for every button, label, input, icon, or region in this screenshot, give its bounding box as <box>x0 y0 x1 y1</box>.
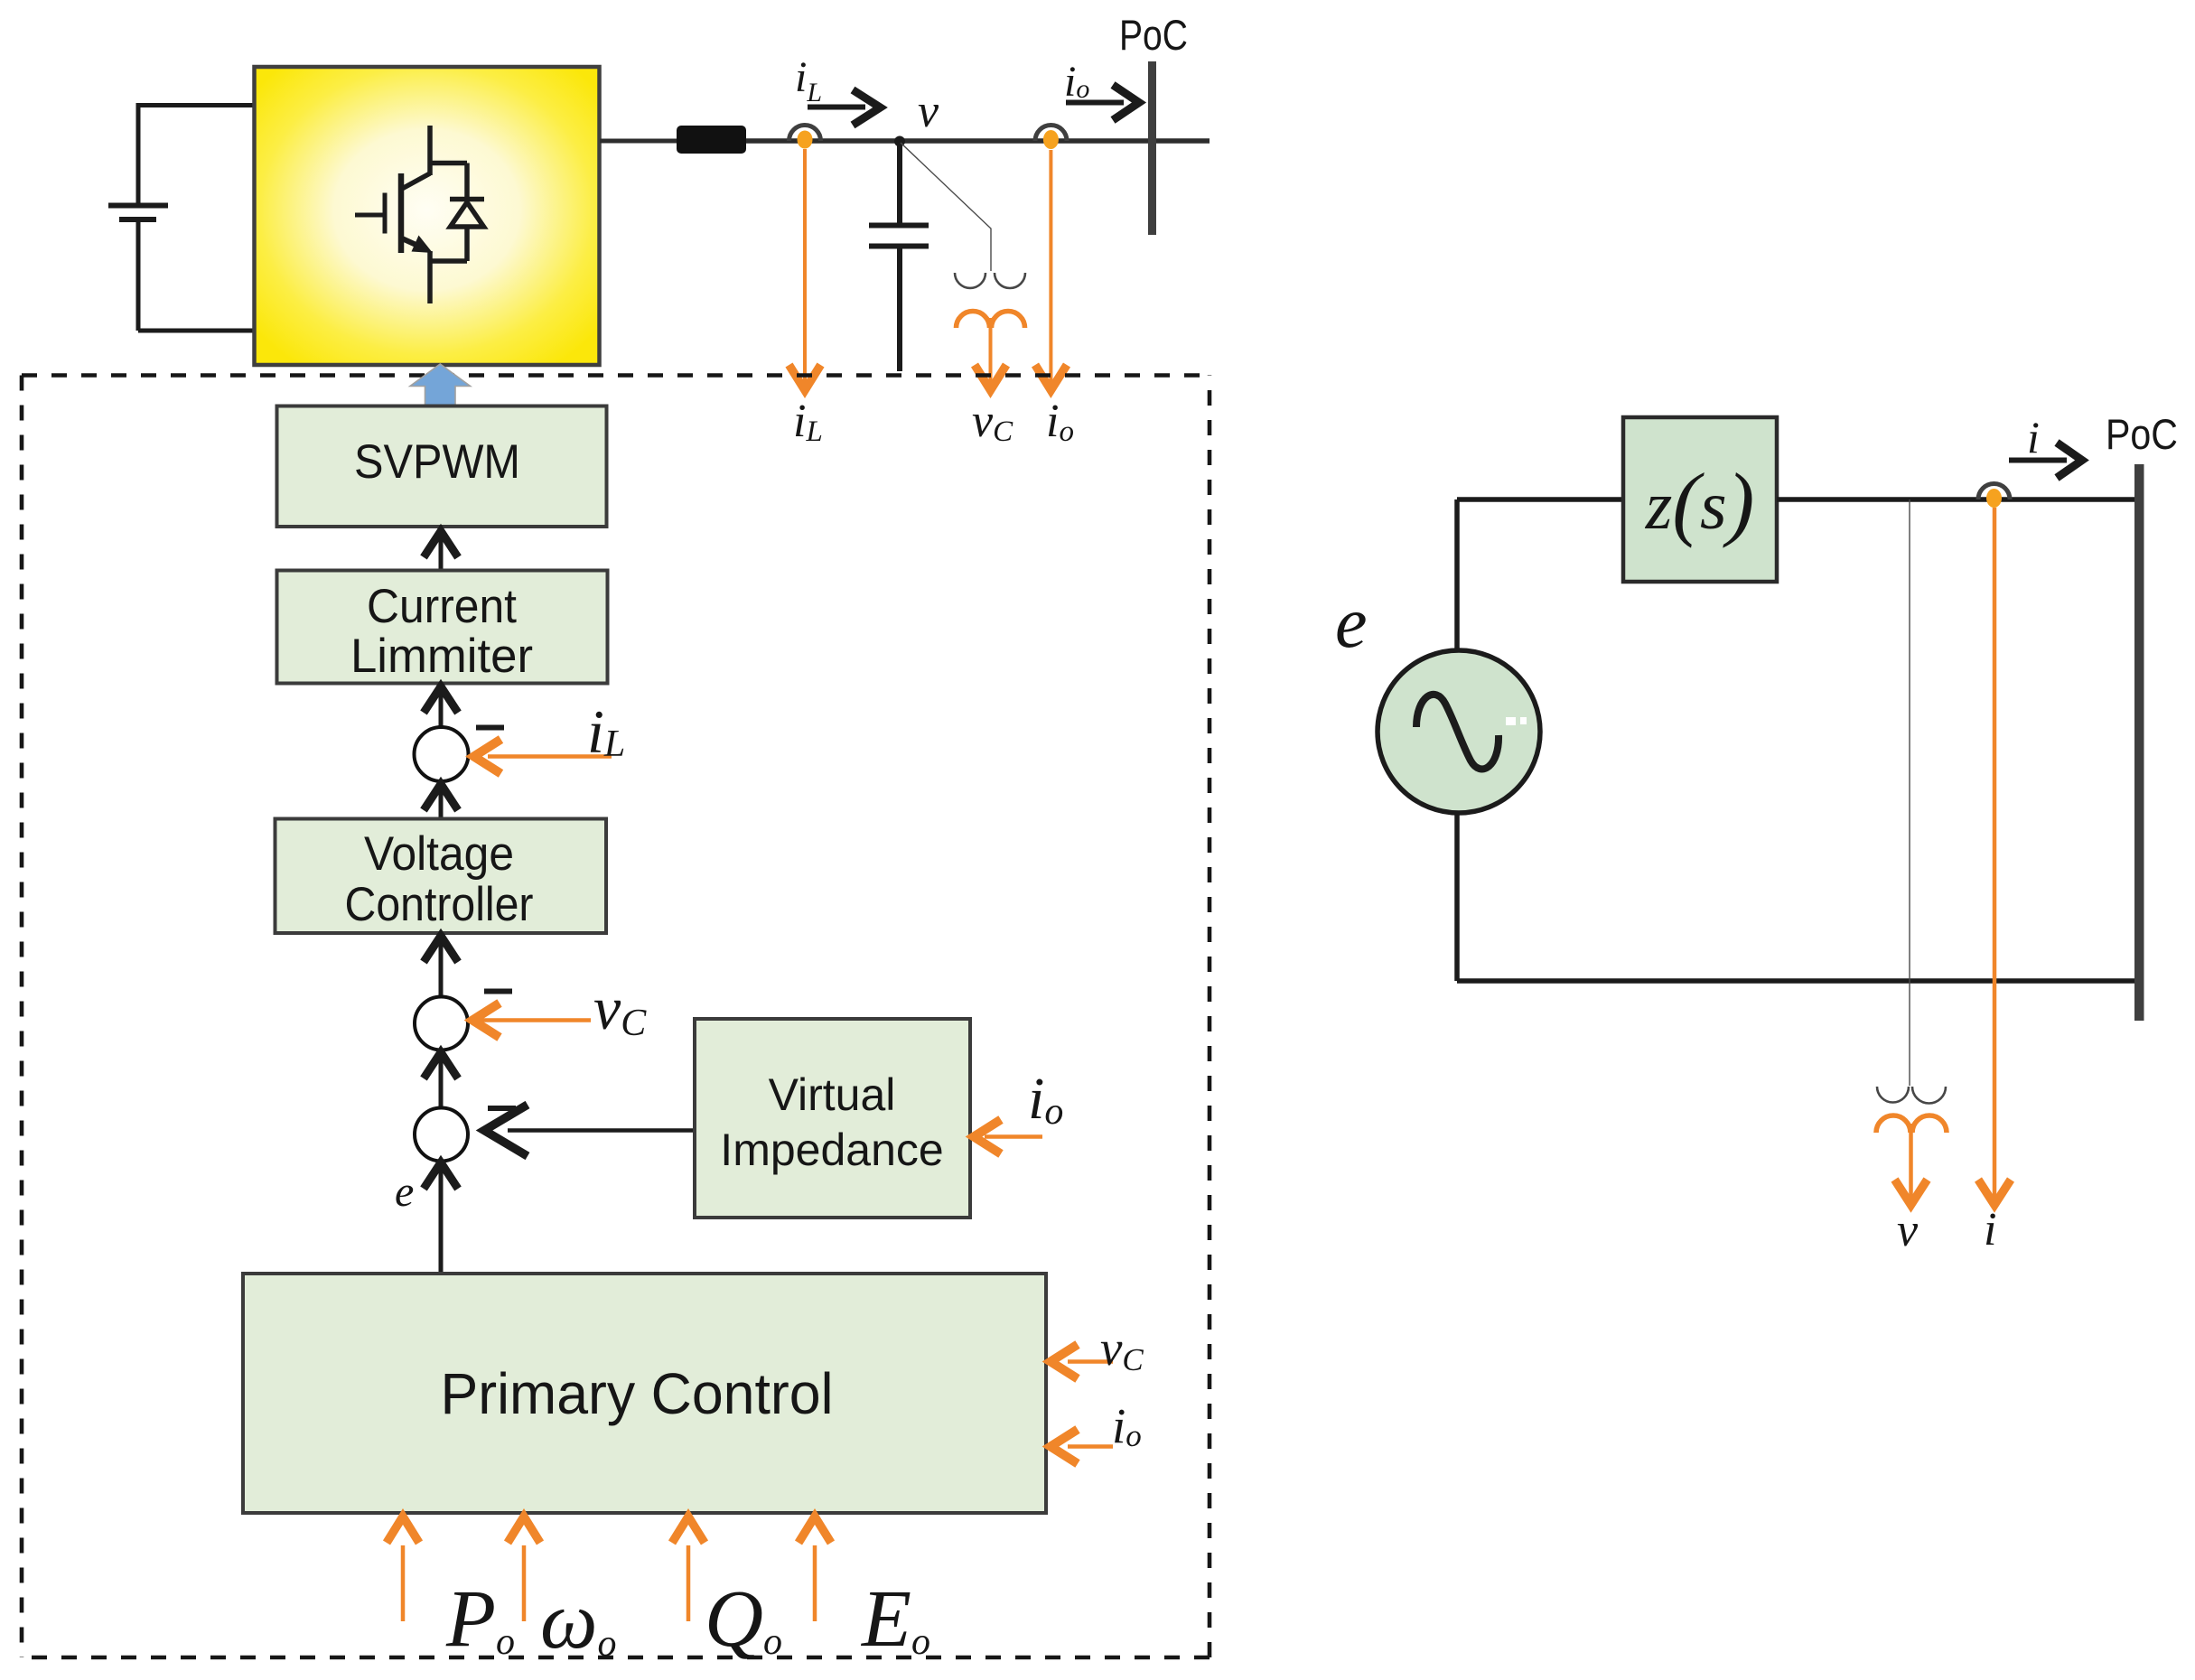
battery V1 <box>108 103 254 331</box>
svg-text:Current: Current <box>367 580 517 633</box>
reference input arrow Eo <box>799 1517 831 1621</box>
svg-text:Voltage: Voltage <box>364 827 514 881</box>
v measurement arrow (right) <box>1895 1124 1928 1205</box>
arrow sum1 to limiter <box>424 686 458 727</box>
block Current Limmiter <box>277 571 608 684</box>
bottom return wire <box>1457 978 2139 984</box>
svg-text:vC: vC <box>593 974 647 1044</box>
svg-text:Limmiter: Limmiter <box>350 630 533 683</box>
svg-text:vC: vC <box>972 396 1013 448</box>
PoC bus bar (left) <box>1148 61 1156 235</box>
voltage probe clips orange <box>957 312 1025 329</box>
transistor Q1 (IGBT) <box>355 126 467 303</box>
voltage probe lead <box>901 143 991 271</box>
svg-text:Primary Control: Primary Control <box>441 1361 834 1426</box>
svg-text:iL: iL <box>793 396 823 448</box>
reference input arrow wo <box>508 1517 540 1621</box>
source e (sine) <box>1378 650 1540 813</box>
vC feedback arrow <box>472 1003 591 1038</box>
svg-text:iL: iL <box>587 697 625 766</box>
svg-text:i: i <box>2027 412 2040 462</box>
block Primary Control <box>243 1274 1046 1513</box>
probe clips gray (right) <box>1877 1087 1946 1104</box>
svg-text:vC: vC <box>1100 1321 1144 1377</box>
svg-text:PoC: PoC <box>1119 11 1188 59</box>
vC input arrow PC <box>1051 1345 1113 1379</box>
reference input arrow Qo <box>672 1517 705 1621</box>
svg-text:e: e <box>1335 583 1368 663</box>
summing node S1 <box>415 727 469 781</box>
io input arrow to VI <box>974 1120 1042 1154</box>
arrow sum3 to sum2 <box>424 1051 458 1107</box>
svg-text:v: v <box>1897 1205 1919 1256</box>
diode D1 <box>430 163 484 262</box>
PWM gate arrow (blue) <box>410 364 471 406</box>
reference input arrow Po <box>387 1517 419 1621</box>
current sensor iL <box>789 126 821 149</box>
node v <box>894 136 905 147</box>
block z(s) <box>1623 417 1777 582</box>
left wire of source loop <box>1454 499 1460 981</box>
arrow sum2 to VC <box>424 936 458 996</box>
svg-text:Po: Po <box>445 1574 515 1664</box>
svg-text:iL: iL <box>795 53 822 107</box>
svg-text:z(s): z(s) <box>1645 456 1754 548</box>
minus sign S1 <box>476 725 504 731</box>
svg-text:Controller: Controller <box>345 878 534 931</box>
svg-text:PoC: PoC <box>2106 410 2178 458</box>
svg-text:i: i <box>1984 1204 1996 1255</box>
summing node S2 <box>415 997 468 1050</box>
io input arrow PC <box>1051 1430 1113 1464</box>
wire z(s) to PoC <box>1777 497 2134 502</box>
svg-text:Qo: Qo <box>705 1574 782 1664</box>
svg-text:Impedance: Impedance <box>720 1125 943 1175</box>
arrow VC to sum1 <box>424 783 458 818</box>
block SVPWM <box>277 406 607 527</box>
svg-text:Eo: Eo <box>860 1574 930 1664</box>
i measurement arrow (right) <box>1978 508 2011 1205</box>
svg-text:io: io <box>1112 1398 1142 1453</box>
block Virtual Impedance <box>695 1019 970 1218</box>
inductor L1 <box>677 126 746 154</box>
arrow PC to sum3 <box>424 1162 458 1274</box>
emitter arrowhead <box>412 236 434 254</box>
summing node S3 <box>415 1108 468 1162</box>
measurement arrow vC <box>975 318 1006 390</box>
controller dashed boundary <box>22 376 1210 1658</box>
svg-text:ωo: ωo <box>540 1576 617 1666</box>
wire converter to inductor <box>600 139 677 144</box>
voltage probe lead (right) <box>1909 499 1910 1086</box>
wire inductor to PoC <box>746 138 1210 144</box>
voltage probe clips gray <box>955 273 1025 288</box>
svg-text:v: v <box>918 86 939 137</box>
PoC bus bar (right) <box>2134 464 2144 1021</box>
current sensor io <box>1035 126 1067 150</box>
io flow arrow <box>1066 85 1139 120</box>
minus sign S2 <box>484 989 512 994</box>
measurement arrow io <box>1035 150 1067 390</box>
probe clips orange (right) <box>1876 1115 1947 1133</box>
svg-text:Virtual: Virtual <box>769 1069 896 1120</box>
minus sign S3 <box>488 1106 516 1111</box>
wire VI to sum3 <box>484 1105 695 1156</box>
arrow limiter to SVPWM <box>424 531 458 570</box>
block Voltage Controller <box>276 819 607 934</box>
converter block (yellow) <box>255 67 600 365</box>
i flow arrow (right) <box>2009 443 2082 478</box>
svg-text:io: io <box>1064 58 1089 106</box>
iL flow arrow <box>808 90 881 126</box>
measurement arrow iL <box>789 149 821 390</box>
svg-text:e: e <box>395 1168 414 1216</box>
iL feedback arrow <box>474 740 612 774</box>
svg-text:io: io <box>1028 1066 1063 1133</box>
svg-text:SVPWM: SVPWM <box>354 435 520 489</box>
current sensor i (right) <box>1978 484 2010 509</box>
wire source to z(s) <box>1457 497 1623 502</box>
capacitor C1 <box>869 141 929 371</box>
svg-text:io: io <box>1046 396 1074 448</box>
